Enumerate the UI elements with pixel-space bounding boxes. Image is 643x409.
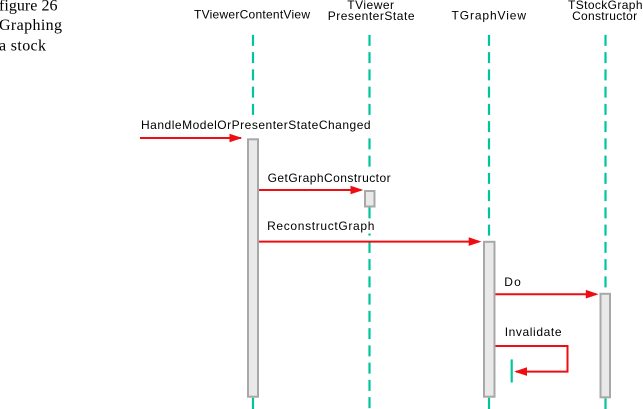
activation bar TViewerPresenterState: [365, 191, 375, 207]
svg-text:GetGraphConstructor: GetGraphConstructor: [268, 171, 391, 185]
nested activation lifeline segment (teal): [511, 359, 513, 382]
header TViewer PresenterState: [328, 0, 415, 23]
svg-text:TViewerContentView: TViewerContentView: [194, 8, 310, 22]
lifeline TViewerPresenterState: [368, 35, 370, 409]
lifeline TGraphView: [488, 35, 490, 409]
caption "figure 26 / Graphing / a stock": [0, 0, 62, 54]
message arrow ReconstructGraph: [259, 237, 482, 246]
message arrow Invalidate (self call): [496, 346, 568, 376]
lifeline TStockGraphConstructor: [604, 35, 606, 409]
svg-text:HandleModelOrPresenterStateCha: HandleModelOrPresenterStateChanged: [141, 118, 371, 132]
activation bar TStockGraphConstructor: [601, 294, 611, 398]
lifeline TViewerContentView: [252, 35, 254, 409]
svg-text:figure 26: figure 26: [0, 0, 58, 14]
message arrow HandleModelOrPresenterStateChanged: [140, 134, 242, 142]
svg-text:Invalidate: Invalidate: [505, 325, 562, 339]
svg-text:Graphing: Graphing: [0, 17, 62, 34]
svg-text:a stock: a stock: [0, 37, 46, 54]
message label ReconstructGraph: [266, 219, 377, 234]
svg-text:Constructor: Constructor: [572, 9, 637, 23]
svg-text:ReconstructGraph: ReconstructGraph: [267, 219, 374, 233]
header TStockGraph Constructor: [568, 0, 643, 23]
activation bar TViewerContentView: [248, 139, 258, 396]
svg-text:TGraphView: TGraphView: [452, 9, 527, 23]
message label GetGraphConstructor: [266, 171, 393, 185]
message arrow Do: [496, 290, 599, 299]
svg-text:PresenterState: PresenterState: [328, 9, 415, 23]
message label HandleModelOrPresenterStateChanged: [140, 118, 373, 133]
activation bar TGraphView: [484, 242, 495, 397]
svg-text:Do: Do: [504, 275, 521, 289]
message arrow GetGraphConstructor: [259, 186, 363, 195]
